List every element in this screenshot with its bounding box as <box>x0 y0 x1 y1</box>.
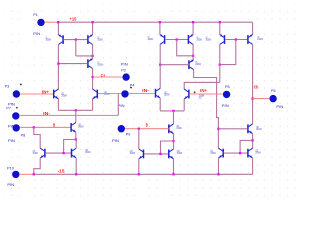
port P9 <box>118 125 125 132</box>
marker near P7 <box>16 107 18 109</box>
node P9 junction <box>138 128 140 130</box>
svg-text:2N3904: 2N3904 <box>130 153 136 155</box>
transistor Q15 <box>169 124 174 134</box>
transistor Q21 <box>219 148 224 158</box>
port P4 <box>121 90 128 97</box>
svg-text:P5: P5 <box>225 85 230 89</box>
node Q15 emitter junction <box>172 140 174 142</box>
wire Q20 emitter to rail <box>173 159 175 175</box>
transistor Q22 <box>248 148 253 158</box>
wire Q8 base to Q3 collector line <box>160 64 189 66</box>
wire Q10 emitter down <box>57 99 59 111</box>
wire Q18 emitter to rail <box>138 159 140 175</box>
wire to Q2 collector <box>76 55 93 57</box>
port P10 <box>12 171 19 178</box>
wire base junction to Q4 collector <box>177 40 193 56</box>
node Q18-Q20 base junction <box>159 153 161 155</box>
node Q19 emitter on rail <box>75 173 77 175</box>
port P3 <box>13 90 20 97</box>
node Q2 collector junction <box>91 55 93 57</box>
marker near Q13 base <box>194 91 196 93</box>
svg-text:P1: P1 <box>33 13 38 17</box>
svg-text:PIN: PIN <box>222 104 229 108</box>
svg-text:2N3904: 2N3904 <box>104 94 110 96</box>
node B junction <box>33 126 35 128</box>
wire Q5 base to Q6 base <box>225 39 247 41</box>
svg-text:IN+: IN+ <box>200 88 207 93</box>
transistor Q18 <box>139 149 144 159</box>
svg-text:2N3904: 2N3904 <box>33 153 39 155</box>
wire Q19 emitter to rail <box>75 158 77 174</box>
transistor Q5 <box>220 34 225 44</box>
wire rail end down to Q6 emitter <box>252 22 254 35</box>
node Q18 emitter on rail <box>138 173 140 175</box>
svg-text:2N2906: 2N2906 <box>257 39 263 41</box>
node Q21-Q22 base junction <box>239 152 241 154</box>
svg-text:IN-: IN- <box>142 88 150 93</box>
wire Q2 emitter to rail <box>92 22 94 35</box>
node Cb junction <box>251 97 253 99</box>
svg-text:IN-: IN- <box>43 111 51 116</box>
node C+ junction <box>91 76 93 78</box>
port P6 <box>269 95 276 102</box>
svg-text:2N3904: 2N3904 <box>177 153 183 155</box>
transistor Q10 <box>54 89 59 99</box>
transistor Q2 <box>88 34 93 44</box>
wire IN- P7 long horizontal <box>20 114 118 116</box>
node Q8 base junction <box>159 64 161 66</box>
svg-text:2N2906: 2N2906 <box>97 39 103 41</box>
svg-text:P2: P2 <box>121 69 126 73</box>
svg-text:P6: P6 <box>271 89 276 93</box>
wire junction to Q17-Q19 base net <box>64 140 76 154</box>
transistor Q12 <box>156 88 161 98</box>
transistor Q14 <box>71 123 76 133</box>
wire Q1 base to Q2 base <box>64 39 88 41</box>
wire Q21 emitter to rail <box>218 158 220 174</box>
wire IN+ P3 to Q10 base <box>20 93 53 95</box>
node tail junction pair 1 <box>75 109 77 111</box>
svg-text:PIN: PIN <box>276 105 283 109</box>
wire Q17 base to Q19 base <box>45 152 71 154</box>
svg-text:2N3904: 2N3904 <box>78 127 84 129</box>
wire Q16 emitter to Q22 collector <box>252 134 254 149</box>
wire emitter bus pair 1 <box>58 109 92 111</box>
svg-text:P10: P10 <box>7 166 14 170</box>
wire P9 to Q15 base <box>125 128 169 130</box>
transistor Q6 <box>248 34 253 44</box>
node Q4 collector junction <box>192 55 194 57</box>
transistor Q19 <box>72 148 77 158</box>
node Q2 emitter on rail <box>91 21 93 23</box>
wire Q6 collector down to Q16 collector <box>252 44 254 124</box>
transistor Q13 <box>184 89 189 99</box>
wire Q8 collector down to Q21 collector <box>194 70 219 149</box>
wire Q3 collector to Q12 collector <box>159 44 161 88</box>
port P2 <box>122 73 129 80</box>
transistor Q3 <box>160 34 165 44</box>
wire Cb to P6 <box>253 98 270 100</box>
node Q17-Q19 base junction <box>62 152 64 154</box>
wire Q5 emitter to rail <box>219 22 221 35</box>
svg-text:P3: P3 <box>5 84 10 88</box>
svg-text:P4: P4 <box>130 83 135 87</box>
wire base junction down <box>75 40 77 56</box>
node tail junction pair 2 <box>172 110 174 112</box>
wire P1 stub to +15 rail <box>44 21 58 23</box>
node Q5 collector junction <box>219 63 221 65</box>
wire Q2 collector to Q7 emitter <box>92 44 94 58</box>
svg-text:PIN: PIN <box>112 139 119 143</box>
wire junction to Q18-Q20 base net <box>161 141 174 154</box>
wire Q14 emitter down <box>75 132 77 139</box>
svg-text:2N3904: 2N3904 <box>255 153 261 155</box>
node Q14 emitter junction <box>75 138 77 140</box>
wire Q5 collector down <box>219 44 221 82</box>
wire base junction to Q5 collector <box>220 40 236 65</box>
svg-text:C+: C+ <box>101 73 106 78</box>
wire Q1 collector down to Q10 collector <box>57 44 59 89</box>
svg-text:2N3904: 2N3904 <box>61 96 67 98</box>
transistor Q4 <box>188 34 193 44</box>
svg-text:PIN: PIN <box>8 124 15 128</box>
svg-text:P8: P8 <box>21 134 26 138</box>
wire Q13 emitter down <box>183 99 185 111</box>
svg-text:Q13: Q13 <box>199 97 202 99</box>
svg-text:PIN: PIN <box>8 139 15 143</box>
marker near P3 <box>20 83 22 85</box>
wire Q22 emitter to rail end <box>252 158 254 174</box>
svg-text:+15: +15 <box>70 17 78 22</box>
wire P4 to Q12 base <box>129 93 155 95</box>
node Q16 emitter junction <box>251 139 253 141</box>
svg-text:IN+: IN+ <box>42 90 49 95</box>
wire junction down to Q18 collector <box>138 129 140 149</box>
wire junction to Q20 collector <box>173 141 175 149</box>
wire tail 2 down to Q15 collector <box>173 111 175 124</box>
node Q7 base junction <box>57 62 59 64</box>
svg-text:-15: -15 <box>58 169 66 174</box>
svg-text:P7: P7 <box>6 107 11 111</box>
svg-text:Cb: Cb <box>254 84 259 89</box>
wire IN- up to Q11 base net <box>117 94 119 116</box>
svg-text:2N2906: 2N2906 <box>197 40 203 42</box>
wire Q4 emitter to rail <box>192 22 194 35</box>
node Q5-Q6 base junction <box>235 38 237 40</box>
wire Q7 collector down to Q11 collector <box>92 68 94 89</box>
marker near P4 <box>130 87 132 89</box>
svg-text:2N3904: 2N3904 <box>85 152 91 154</box>
wire Q11 base to P4 <box>98 93 121 95</box>
svg-text:B: B <box>53 123 55 128</box>
node Q5 emitter on rail <box>219 21 221 23</box>
wire Q5 collector to Q13 collector <box>184 82 220 89</box>
transistor Q7 <box>88 58 93 68</box>
port P1 <box>37 19 44 26</box>
node Q3-Q4 base junction <box>176 38 178 40</box>
node Q17 emitter on rail <box>33 173 35 175</box>
wire Q3 base to Q4 base <box>165 39 188 41</box>
node Q3 emitter on rail <box>159 21 161 23</box>
node Q1 emitter on rail <box>57 21 59 23</box>
wire -15 rail <box>34 173 253 175</box>
svg-text:2N2906: 2N2906 <box>206 40 212 42</box>
wire Q19 collector up to junction <box>75 140 77 149</box>
wire Q12 emitter down <box>159 98 161 111</box>
node Q1-Q2 base junction <box>75 38 77 40</box>
wire Q3 emitter to rail <box>159 22 161 35</box>
transistor Q16 <box>248 124 253 134</box>
port P8 <box>13 124 20 131</box>
svg-text:PIN: PIN <box>7 183 14 187</box>
transistor Q1 <box>58 34 63 44</box>
svg-text:2N2906: 2N2906 <box>148 39 154 41</box>
svg-text:2N3904: 2N3904 <box>176 128 182 130</box>
wire +15 rail <box>58 21 252 23</box>
wire Q18 base to Q20 base <box>144 153 168 155</box>
transistor Q11 <box>93 89 98 99</box>
svg-text:2N3904: 2N3904 <box>164 94 170 96</box>
port P5 <box>223 91 230 98</box>
svg-text:2N2906: 2N2906 <box>97 64 103 66</box>
svg-text:2N3904: 2N3904 <box>256 129 262 131</box>
wire P10 stub <box>20 173 34 175</box>
wire emitter bus pair 2 <box>160 110 184 112</box>
wire junction to Q21-Q22 base net <box>240 140 253 153</box>
wire Q15 emitter down <box>173 134 175 141</box>
wire Q7 base to Q1 collector line <box>58 63 87 65</box>
wire Q21 base to Q22 base <box>224 152 248 154</box>
node Q4 emitter on rail <box>192 21 194 23</box>
transistor Q17 <box>40 148 45 158</box>
wire Q13 base to P5 <box>189 93 222 95</box>
node Q20 emitter on rail <box>172 173 174 175</box>
svg-text:PIN: PIN <box>121 62 128 66</box>
wire B net P8 to Q14 base <box>20 126 70 128</box>
wire C+ to P2 <box>93 76 123 78</box>
svg-text:P9: P9 <box>126 132 131 136</box>
svg-text:2N2906: 2N2906 <box>195 64 201 66</box>
node Q21 emitter on rail <box>217 173 219 175</box>
wire tail down to Q14 collector <box>75 110 77 122</box>
svg-text:2N3904: 2N3904 <box>210 153 216 155</box>
wire Q11 emitter down <box>92 99 94 111</box>
transistor Q20 <box>169 149 174 159</box>
port P7 <box>12 112 19 119</box>
wire Q1 emitter to rail <box>57 22 59 35</box>
wire Q4 collector to Q8 emitter <box>192 44 194 60</box>
wire B down to Q17 collector <box>34 127 40 148</box>
svg-text:B: B <box>146 123 148 128</box>
svg-text:PIN: PIN <box>33 32 40 36</box>
node Q16 base junction <box>217 128 219 130</box>
svg-text:2N2906: 2N2906 <box>46 39 52 41</box>
transistor Q8 <box>189 59 194 69</box>
wire Q16 base to Q21 collector net <box>218 128 247 130</box>
wire Q17 emitter to -15 rail <box>34 158 40 174</box>
